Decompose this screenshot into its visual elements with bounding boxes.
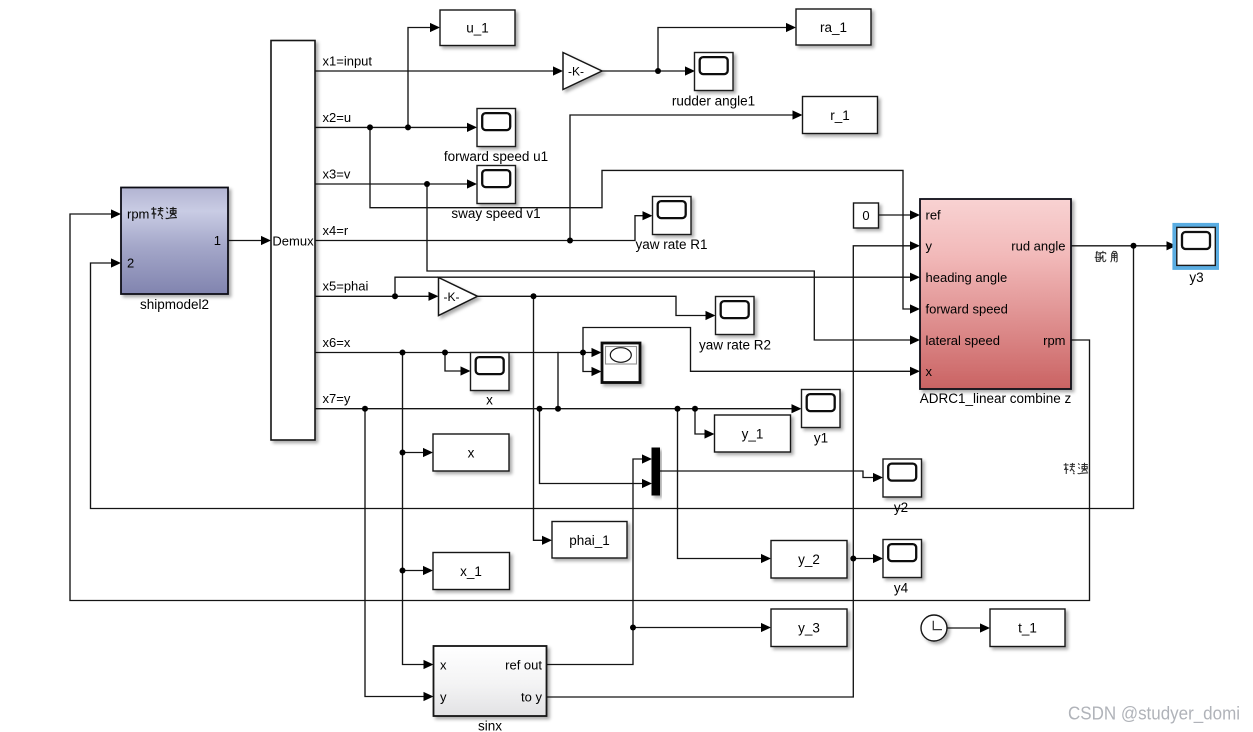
wire branch x3 to ADRC lateral speed input [427,184,920,345]
wire x4=r from Demux to yaw rate R1 scope [315,211,653,240]
svg-text:lateral speed: lateral speed [926,333,1000,348]
svg-text:sway speed v1: sway speed v1 [451,206,540,221]
wire x7=y from Demux to y1 scope [315,404,802,413]
svg-text:0: 0 [862,208,869,223]
wire branch to ra_1 [658,23,796,71]
svg-text:x: x [468,446,475,461]
wire branch x7 to y_1 Goto [695,409,715,439]
block sinx subsystem [434,646,547,732]
svg-text:x1=input: x1=input [323,54,373,69]
svg-text:ADRC1_linear combine z: ADRC1_linear combine z [920,391,1072,406]
svg-text:rudder angle1: rudder angle1 [672,94,755,109]
wire x2=u from Demux to forward speed u1 scope [315,123,477,132]
wire Mux output to y2 scope [660,471,884,482]
node label 舵角 (rudder angle) [1095,251,1117,262]
svg-text:1: 1 [214,233,221,248]
svg-text:-K-: -K- [568,65,584,79]
svg-text:x: x [486,393,493,408]
wire Clock to t_1 [947,623,990,632]
block t_1 Goto [990,609,1065,647]
scope sway speed v1 [451,166,540,222]
wire branch x5 to ADRC heading angle input [395,273,920,297]
block y_1 Goto [715,415,791,452]
scope y1 [802,390,841,446]
svg-text:heading angle: heading angle [926,270,1008,285]
svg-text:rud angle: rud angle [1011,239,1065,254]
wire branch x2 to ADRC forward speed input [370,127,920,313]
svg-text:ref out: ref out [505,658,542,673]
block XY Graph [602,343,640,383]
scope forward speed u1 [444,109,548,165]
scope y3 selected [1172,223,1219,285]
svg-text:to y: to y [521,690,542,705]
wire sinx ref out to Mux first input and y_3 column [547,454,653,664]
wire branch to x_1 Goto [403,566,434,575]
svg-text:ref: ref [926,207,942,222]
svg-text:u_1: u_1 [466,21,489,36]
wire branch x7 to Mux second input [540,409,653,488]
wire constant 0 to ADRC ref input [879,210,921,219]
svg-text:sinx: sinx [478,719,502,732]
svg-text:phai_1: phai_1 [569,533,610,548]
svg-text:x2=u: x2=u [323,110,352,125]
svg-text:x: x [926,364,933,379]
node label 转速 (rpm) [1064,463,1089,474]
wire rudder feedback to shipmodel2 input 2 [91,246,1134,509]
svg-text:r_1: r_1 [830,108,850,123]
svg-text:y: y [926,239,933,254]
wire gain G1 output to rudder angle1 scope [602,66,695,75]
svg-text:forward speed: forward speed [926,301,1008,316]
block ra_1 Goto [796,9,871,45]
wire sinx to y output up to ADRC y input [547,241,921,697]
wire branch x2 to u_1 [408,23,440,128]
scope yaw rate R1 [635,197,707,253]
wire x5=phai from Demux to gain G2 [315,292,439,301]
svg-text:x_1: x_1 [460,564,482,579]
gain G2 -K- [439,278,478,316]
wire branch to x Goto [403,448,434,457]
block y_2 Goto [771,541,847,579]
svg-text:x7=y: x7=y [323,391,351,406]
svg-text:y3: y3 [1189,270,1203,285]
svg-text:x6=x: x6=x [323,335,351,350]
svg-text:x4=r: x4=r [323,223,349,238]
wire branch to y4 scope [853,554,883,563]
block constant 0 [854,203,879,228]
svg-text:Demux: Demux [272,233,314,248]
svg-text:x5=phai: x5=phai [323,279,369,294]
svg-text:forward speed u1: forward speed u1 [444,149,548,164]
wire ADRC rpm output feedback to shipmodel2 rpm input [70,209,1090,600]
wire gain G2 output to yaw rate R2 scope [478,296,716,320]
block shipmodel2 subsystem [121,188,228,313]
svg-text:y_1: y_1 [742,427,764,442]
wire branch x4 to r_1 [570,110,803,240]
wire branch x7 to sinx y input [365,409,434,701]
scope yaw rate R2 [699,297,771,353]
svg-text:ra_1: ra_1 [820,20,847,35]
svg-text:-K-: -K- [444,290,460,304]
wire x6=x from Demux to XY Graph first input [315,348,602,357]
svg-text:x3=v: x3=v [323,167,351,182]
svg-text:2: 2 [127,256,134,271]
wire ADRC rud angle output to y3 scope [1071,241,1177,250]
svg-text:yaw rate R1: yaw rate R1 [635,237,707,252]
wire x3=v from Demux to sway speed v1 scope [315,179,477,188]
block u_1 Goto [440,10,515,46]
svg-text:y2: y2 [894,500,908,515]
scope y4 [883,540,922,596]
block Demux [271,41,315,441]
svg-text:CSDN @studyer_domi: CSDN @studyer_domi [1068,703,1240,725]
block x Goto [433,434,509,471]
block phai_1 Goto [552,522,627,559]
svg-text:y_2: y_2 [798,552,820,567]
block r_1 Goto [803,97,878,134]
svg-text:y: y [440,690,447,705]
Mux [652,448,660,495]
wire stub between x6 line and x7 line [557,353,559,409]
scope rudder angle1 [672,53,755,109]
block x_1 Goto [433,553,510,590]
svg-text:y_3: y_3 [798,621,820,636]
svg-text:y4: y4 [894,581,909,596]
svg-text:t_1: t_1 [1018,621,1037,636]
svg-text:rpm: rpm [127,207,149,222]
svg-text:yaw rate R2: yaw rate R2 [699,338,771,353]
wire branch x6 to ADRC x input [583,328,920,376]
wire branch x6 down column to x Goto, x_1 and sinx x input [403,353,434,670]
gain G1 -K- [563,53,602,90]
wire branch G2 output to phai_1 [534,296,553,545]
block y_3 Goto [771,609,847,647]
wire branch to XY Graph second input [583,353,602,377]
block ADRC1_linear combine z subsystem [920,199,1072,406]
svg-text:rpm: rpm [1043,333,1065,348]
Clock [921,615,947,641]
wire x1=input from Demux to gain G1 [315,66,563,75]
scope y2 [883,459,922,515]
svg-text:y1: y1 [814,431,828,446]
svg-text:shipmodel2: shipmodel2 [140,297,209,312]
wire shipmodel2 output 1 to Demux [228,236,271,245]
wire branch x6 to x scope [445,353,471,376]
svg-text:x: x [440,658,447,673]
scope x [471,353,510,408]
wire branch x7 to y_2 Goto [678,409,772,563]
wire branch to y_3 Goto [633,623,771,632]
